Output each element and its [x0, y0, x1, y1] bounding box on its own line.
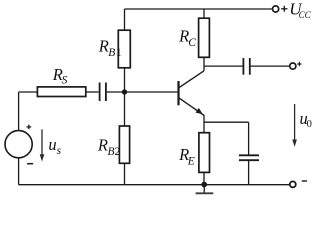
resistor RB1: [118, 30, 130, 68]
terminal output minus: [290, 181, 296, 187]
wire collector node to C2: [204, 65, 243, 67]
resistor RC: [199, 18, 210, 57]
node emitter-ground junction dot: [201, 182, 207, 188]
wire RB2 bottom to ground rail: [124, 163, 126, 184]
wire CE top lead: [248, 122, 250, 155]
wire source top lead: [18, 92, 20, 131]
ground: [196, 187, 214, 194]
svg-text:0: 0: [307, 119, 312, 130]
svg-text:E: E: [187, 155, 195, 167]
svg-text:u: u: [48, 135, 56, 154]
label us: [48, 135, 61, 157]
label RS: [52, 65, 68, 87]
capacitor C2 output coupling: [243, 58, 249, 75]
label output plus sign: [297, 62, 301, 66]
source minus sign: [27, 163, 33, 165]
resistor RE: [199, 133, 210, 173]
transistor Q1: [179, 71, 205, 116]
svg-text:S: S: [62, 74, 68, 86]
capacitor CE emitter bypass: [239, 155, 259, 160]
source plus sign: [27, 125, 32, 130]
terminal +Ucc: [273, 6, 279, 12]
wire RS left lead and corner: [19, 91, 38, 93]
wire RC top lead: [203, 9, 205, 18]
resistor RS: [37, 87, 85, 97]
wire CE bottom lead: [248, 160, 250, 184]
svg-text:B1: B1: [108, 47, 122, 59]
svg-text:B2: B2: [108, 146, 121, 158]
label RB1: [98, 37, 122, 60]
node A base junction dot: [122, 89, 127, 94]
wire emitter to RE top: [203, 115, 205, 133]
source us circle: [5, 131, 32, 158]
wire emitter node to CE branch: [204, 121, 249, 123]
wire RB1 bottom lead to base node: [124, 68, 126, 92]
resistor RB2: [119, 126, 129, 163]
arrow us: [40, 129, 45, 161]
terminal output plus: [290, 63, 296, 69]
wire RB1 top lead: [124, 9, 126, 30]
wire source bottom lead: [18, 158, 20, 185]
label +Ucc: [281, 0, 311, 20]
label output minus sign: [302, 180, 307, 182]
svg-text:C: C: [188, 37, 196, 49]
svg-text:CC: CC: [299, 10, 312, 20]
wire C1 to base: [107, 91, 178, 93]
wire RS right lead to C1: [86, 91, 99, 93]
wire base node to RB2 top: [124, 92, 126, 126]
arrow u0: [292, 104, 297, 147]
wire RE bottom to ground node: [203, 172, 205, 184]
svg-text:s: s: [57, 145, 62, 157]
wire bottom rail: [19, 184, 290, 186]
wire RC bottom lead to collector: [203, 57, 205, 71]
wire top rail: [125, 8, 273, 10]
label RE: [178, 145, 195, 167]
svg-text:R: R: [97, 136, 108, 155]
wire C2 to output terminal: [251, 65, 290, 67]
capacitor C1 input coupling: [100, 83, 106, 102]
label u0: [300, 109, 312, 130]
label RC: [178, 27, 196, 50]
label RB2: [97, 136, 121, 159]
